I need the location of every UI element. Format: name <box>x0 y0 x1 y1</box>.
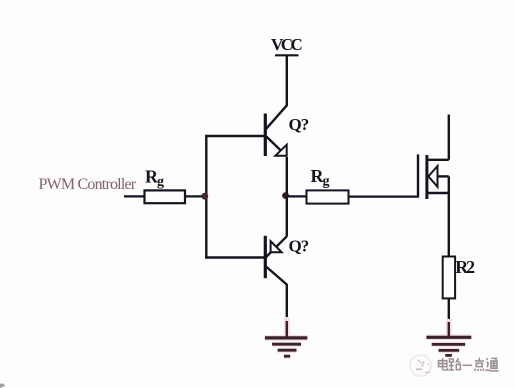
svg-text:Q?: Q? <box>289 115 309 134</box>
wire Q2 collector to ground <box>286 285 288 338</box>
MOSFET M1 (N-channel) <box>418 115 449 200</box>
wire Rg2 to MOSFET gate <box>349 196 419 198</box>
transistor Q1 (NPN, top) <box>265 105 287 156</box>
wire top base horizontal <box>205 135 264 137</box>
wire bottom base horizontal <box>205 256 264 258</box>
watermark text 电路一点通 <box>439 358 499 371</box>
ground (right, under R2) <box>426 319 471 350</box>
wire mid node to Q2 emitter <box>286 196 288 236</box>
resistor R2 <box>443 257 455 299</box>
watermark logo <box>410 355 431 376</box>
svg-text:Q?: Q? <box>289 237 309 256</box>
ground (left, under Q2) <box>265 317 307 356</box>
junction node (output) <box>282 192 289 199</box>
wire mid node to Rg2 <box>287 195 307 197</box>
power symbol VCC bar <box>275 54 299 56</box>
resistor Rg1 <box>145 190 186 203</box>
resistor Rg2 <box>307 190 349 203</box>
wire Q1 emitter to mid node <box>286 157 288 196</box>
wire MOSFET source to R2 <box>448 193 450 257</box>
wire Rg1 to bases node <box>185 195 207 197</box>
wire input to Rg1 <box>124 195 145 197</box>
svg-text:VCC: VCC <box>271 35 302 54</box>
wire base coupling left vertical <box>205 135 207 259</box>
wire VCC to Q1 collector <box>286 55 288 105</box>
junction node (bases) <box>201 193 208 200</box>
svg-text:PWM Controller: PWM Controller <box>39 176 137 193</box>
wire R2 to ground <box>448 298 450 337</box>
svg-text:R2: R2 <box>455 257 475 277</box>
corner artifact <box>0 383 5 388</box>
transistor Q2 (PNP, bottom) <box>265 236 287 285</box>
